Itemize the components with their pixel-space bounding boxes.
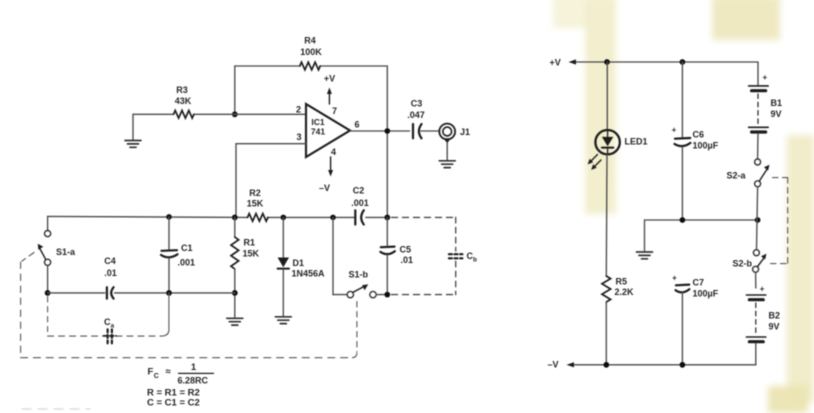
svg-text:C: C [154,373,159,380]
svg-text:15K: 15K [243,249,260,259]
wire dashed S1-b arm down [356,302,358,353]
node C7 column middle [680,217,686,223]
wire dashed to Cb box top [392,216,456,218]
svg-text:IC1: IC1 [311,117,325,127]
node LED column top [604,59,610,65]
switch S2-b [733,250,767,273]
power +V arrow right circuit [550,58,608,68]
node C1 bottom [166,290,172,296]
capacitor C3 [407,99,425,139]
ground at J1 [446,142,448,160]
wire dashed S1-a arm to bottom rail [21,253,357,358]
svg-text:–V: –V [548,359,559,369]
wire pin3 [236,144,306,218]
capacitor Cb dashed branch [455,217,457,294]
wire dashed S1-b row to Cb box [392,294,456,296]
wire LED to R5 [605,154,608,276]
node S1-b right [384,292,390,298]
power -V arrow right circuit [548,359,575,369]
node R1 top [232,215,238,221]
background paper tints [553,0,814,413]
ground below R1 [227,318,243,325]
svg-text:9V: 9V [769,322,780,332]
node C1 top [166,214,172,220]
resistor R3 [174,85,194,118]
svg-text:R5: R5 [616,277,628,287]
formula Fc [148,362,214,386]
node S1-a / C4 row [45,290,51,296]
wire output row [350,130,439,132]
svg-text:1: 1 [191,362,197,373]
svg-text:100µF: 100µF [693,141,719,151]
wire R2 row [48,216,388,230]
svg-text:C3: C3 [411,99,423,109]
power +V arrow (op-amp pin 7) [324,74,335,105]
connector J1 [439,124,470,144]
node R1 / C4 row [232,290,238,296]
svg-text:100µF: 100µF [693,289,719,299]
capacitor C2 [351,186,369,225]
svg-text:≈: ≈ [166,367,172,378]
resistor R5 [602,276,634,365]
capacitor C5 [380,217,413,294]
svg-text:.01: .01 [104,268,117,278]
svg-text:b: b [473,257,477,264]
wire output vertical [386,66,388,218]
svg-text:S2-b: S2-b [733,259,753,269]
node D1 top [281,215,287,221]
svg-text:C5: C5 [400,245,412,255]
resistor R4 [300,36,322,70]
wire feedback top [235,66,387,114]
wire top rail [607,61,758,63]
svg-text:D1: D1 [293,258,305,268]
ground at R3 input [125,141,141,148]
svg-text:+: + [763,73,768,82]
svg-text:B1: B1 [771,98,783,108]
svg-text:.047: .047 [407,110,425,120]
wire middle rail to ground [645,220,758,251]
diode D1 [278,217,325,316]
svg-text:LED1: LED1 [625,137,648,147]
svg-text:1N456A: 1N456A [292,269,326,279]
svg-text:+V: +V [550,58,561,68]
svg-text:2: 2 [296,105,301,115]
svg-text:S2-a: S2-a [727,171,747,181]
battery B2 [746,272,780,364]
svg-text:100K: 100K [300,47,322,57]
node S1-b branch [330,215,336,221]
svg-text:43K: 43K [175,96,192,106]
battery B1 [749,62,782,159]
svg-text:+V: +V [324,74,335,84]
svg-text:6: 6 [355,120,360,130]
resistor R2 [247,188,268,221]
ground right circuit [637,252,653,259]
svg-text:15K: 15K [247,199,264,209]
svg-text:a: a [111,323,115,330]
svg-text:S1-a: S1-a [56,247,76,257]
faint scan smudge [22,408,90,410]
wire S2-a to S2-b [757,187,758,250]
switch S2-a [727,159,770,187]
svg-text:C6: C6 [693,130,705,140]
node C6 column top [680,59,686,65]
switch S1-a [38,231,76,293]
svg-text:+: + [672,274,677,283]
node output junction [384,128,390,134]
capacitor C1 [161,217,195,293]
capacitor C7 [672,274,719,365]
svg-text:741: 741 [311,127,325,137]
capacitor Ca [104,317,117,343]
ground below D1 [275,317,291,324]
wire C4 row [48,292,235,294]
svg-text:7: 7 [332,106,337,116]
svg-text:F: F [148,367,154,378]
svg-text:R1: R1 [244,238,256,248]
resistor R1 [231,217,260,317]
svg-text:C4: C4 [104,256,116,266]
wire dashed S2 link [771,178,788,264]
node C5 top [384,215,390,221]
svg-text:C = C1 = C2: C = C1 = C2 [147,398,200,409]
svg-text:+: + [672,126,677,135]
svg-text:.01: .01 [401,255,414,265]
capacitor C4 [104,256,117,299]
capacitor Ca dashed branch [48,293,169,336]
capacitor C6 [672,62,719,220]
svg-text:J1: J1 [460,127,470,137]
node battery column middle [755,217,761,223]
svg-text:6.28RC: 6.28RC [178,376,209,386]
node C7 bottom [680,362,686,368]
svg-text:9V: 9V [771,109,782,119]
node pin2 junction [232,111,238,117]
svg-text:.001: .001 [178,258,196,268]
LED LED1 [588,62,648,170]
op-amp U1 IC1 741 [296,104,360,157]
wire bottom rail [572,364,756,366]
wire pin2 input [133,114,306,139]
node R5 bottom [603,362,609,368]
svg-text:C1: C1 [181,243,193,253]
svg-text:.001: .001 [351,198,369,208]
svg-text:B2: B2 [769,311,781,321]
svg-text:R2: R2 [249,188,261,198]
svg-text:+: + [760,285,765,294]
svg-text:C7: C7 [693,278,705,288]
svg-text:S1-b: S1-b [349,270,369,280]
svg-text:–V: –V [319,183,330,193]
svg-text:2.2K: 2.2K [615,287,635,297]
svg-text:3: 3 [296,132,301,142]
power -V arrow (op-amp pin 4) [319,157,333,193]
svg-text:4: 4 [331,147,336,157]
switch S1-b [333,217,387,297]
svg-text:C2: C2 [353,186,365,196]
capacitor Cb [449,251,477,264]
svg-text:R4: R4 [304,36,316,46]
svg-text:R3: R3 [176,85,188,95]
